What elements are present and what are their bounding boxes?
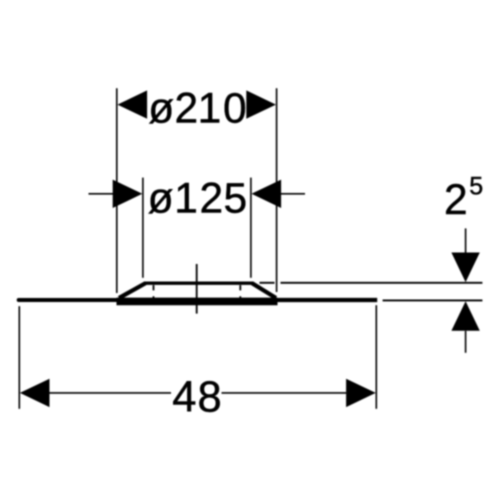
dimension ø125 left arrow bbox=[113, 180, 143, 208]
thickness up arrow bbox=[451, 301, 479, 331]
dimension 48 line left segment bbox=[50, 392, 172, 394]
hidden edge dashed right bbox=[239, 285, 241, 300]
center line bbox=[196, 264, 198, 314]
dimension ø125 right leader line bbox=[281, 193, 306, 195]
svg-text:1: 1 bbox=[198, 85, 222, 132]
plate right slope bbox=[252, 283, 276, 298]
svg-text:1: 1 bbox=[174, 175, 198, 222]
svg-text:4: 4 bbox=[172, 373, 196, 421]
dimension 48 left arrow bbox=[20, 379, 50, 407]
dimension ø125 left leader line bbox=[89, 193, 114, 195]
svg-text:8: 8 bbox=[198, 373, 222, 421]
plate left surface line bbox=[19, 298, 118, 302]
svg-text:ø: ø bbox=[148, 175, 174, 222]
bottom surface extension line bbox=[383, 299, 483, 301]
svg-text:ø: ø bbox=[148, 85, 174, 132]
dimension ø125 right extension line bbox=[250, 178, 252, 278]
thickness down arrow bbox=[451, 253, 479, 283]
dimension 48 line right segment bbox=[222, 392, 347, 394]
dimension ø210 right arrow bbox=[246, 90, 276, 118]
plate thick base line bbox=[117, 298, 278, 306]
plate right surface line bbox=[277, 298, 377, 302]
hidden edge dashed left bbox=[153, 285, 155, 300]
svg-text:5: 5 bbox=[224, 175, 248, 222]
dimension ø125 left extension line bbox=[142, 178, 144, 278]
svg-text:2: 2 bbox=[175, 85, 199, 132]
svg-text:2: 2 bbox=[200, 175, 224, 222]
svg-text:0: 0 bbox=[223, 85, 247, 132]
thickness top leader line bbox=[465, 228, 467, 253]
top surface extension line segment b bbox=[281, 282, 483, 284]
dimension 48 right extension line bbox=[375, 305, 377, 409]
plate raised top line bbox=[144, 282, 253, 285]
top surface extension line segment a bbox=[260, 282, 275, 284]
thickness bottom leader line bbox=[465, 331, 467, 353]
dimension ø210 left arrow bbox=[118, 90, 148, 118]
dimension ø210 right extension line bbox=[276, 88, 278, 292]
dimension 48 right arrow bbox=[346, 379, 376, 407]
svg-text:2: 2 bbox=[444, 177, 468, 224]
dimension ø125 right arrow bbox=[252, 180, 282, 208]
dimension 48 left extension line bbox=[18, 306, 20, 409]
svg-text:5: 5 bbox=[469, 172, 483, 200]
plate left slope bbox=[119, 283, 146, 298]
dimension ø210 left extension line bbox=[116, 88, 118, 293]
